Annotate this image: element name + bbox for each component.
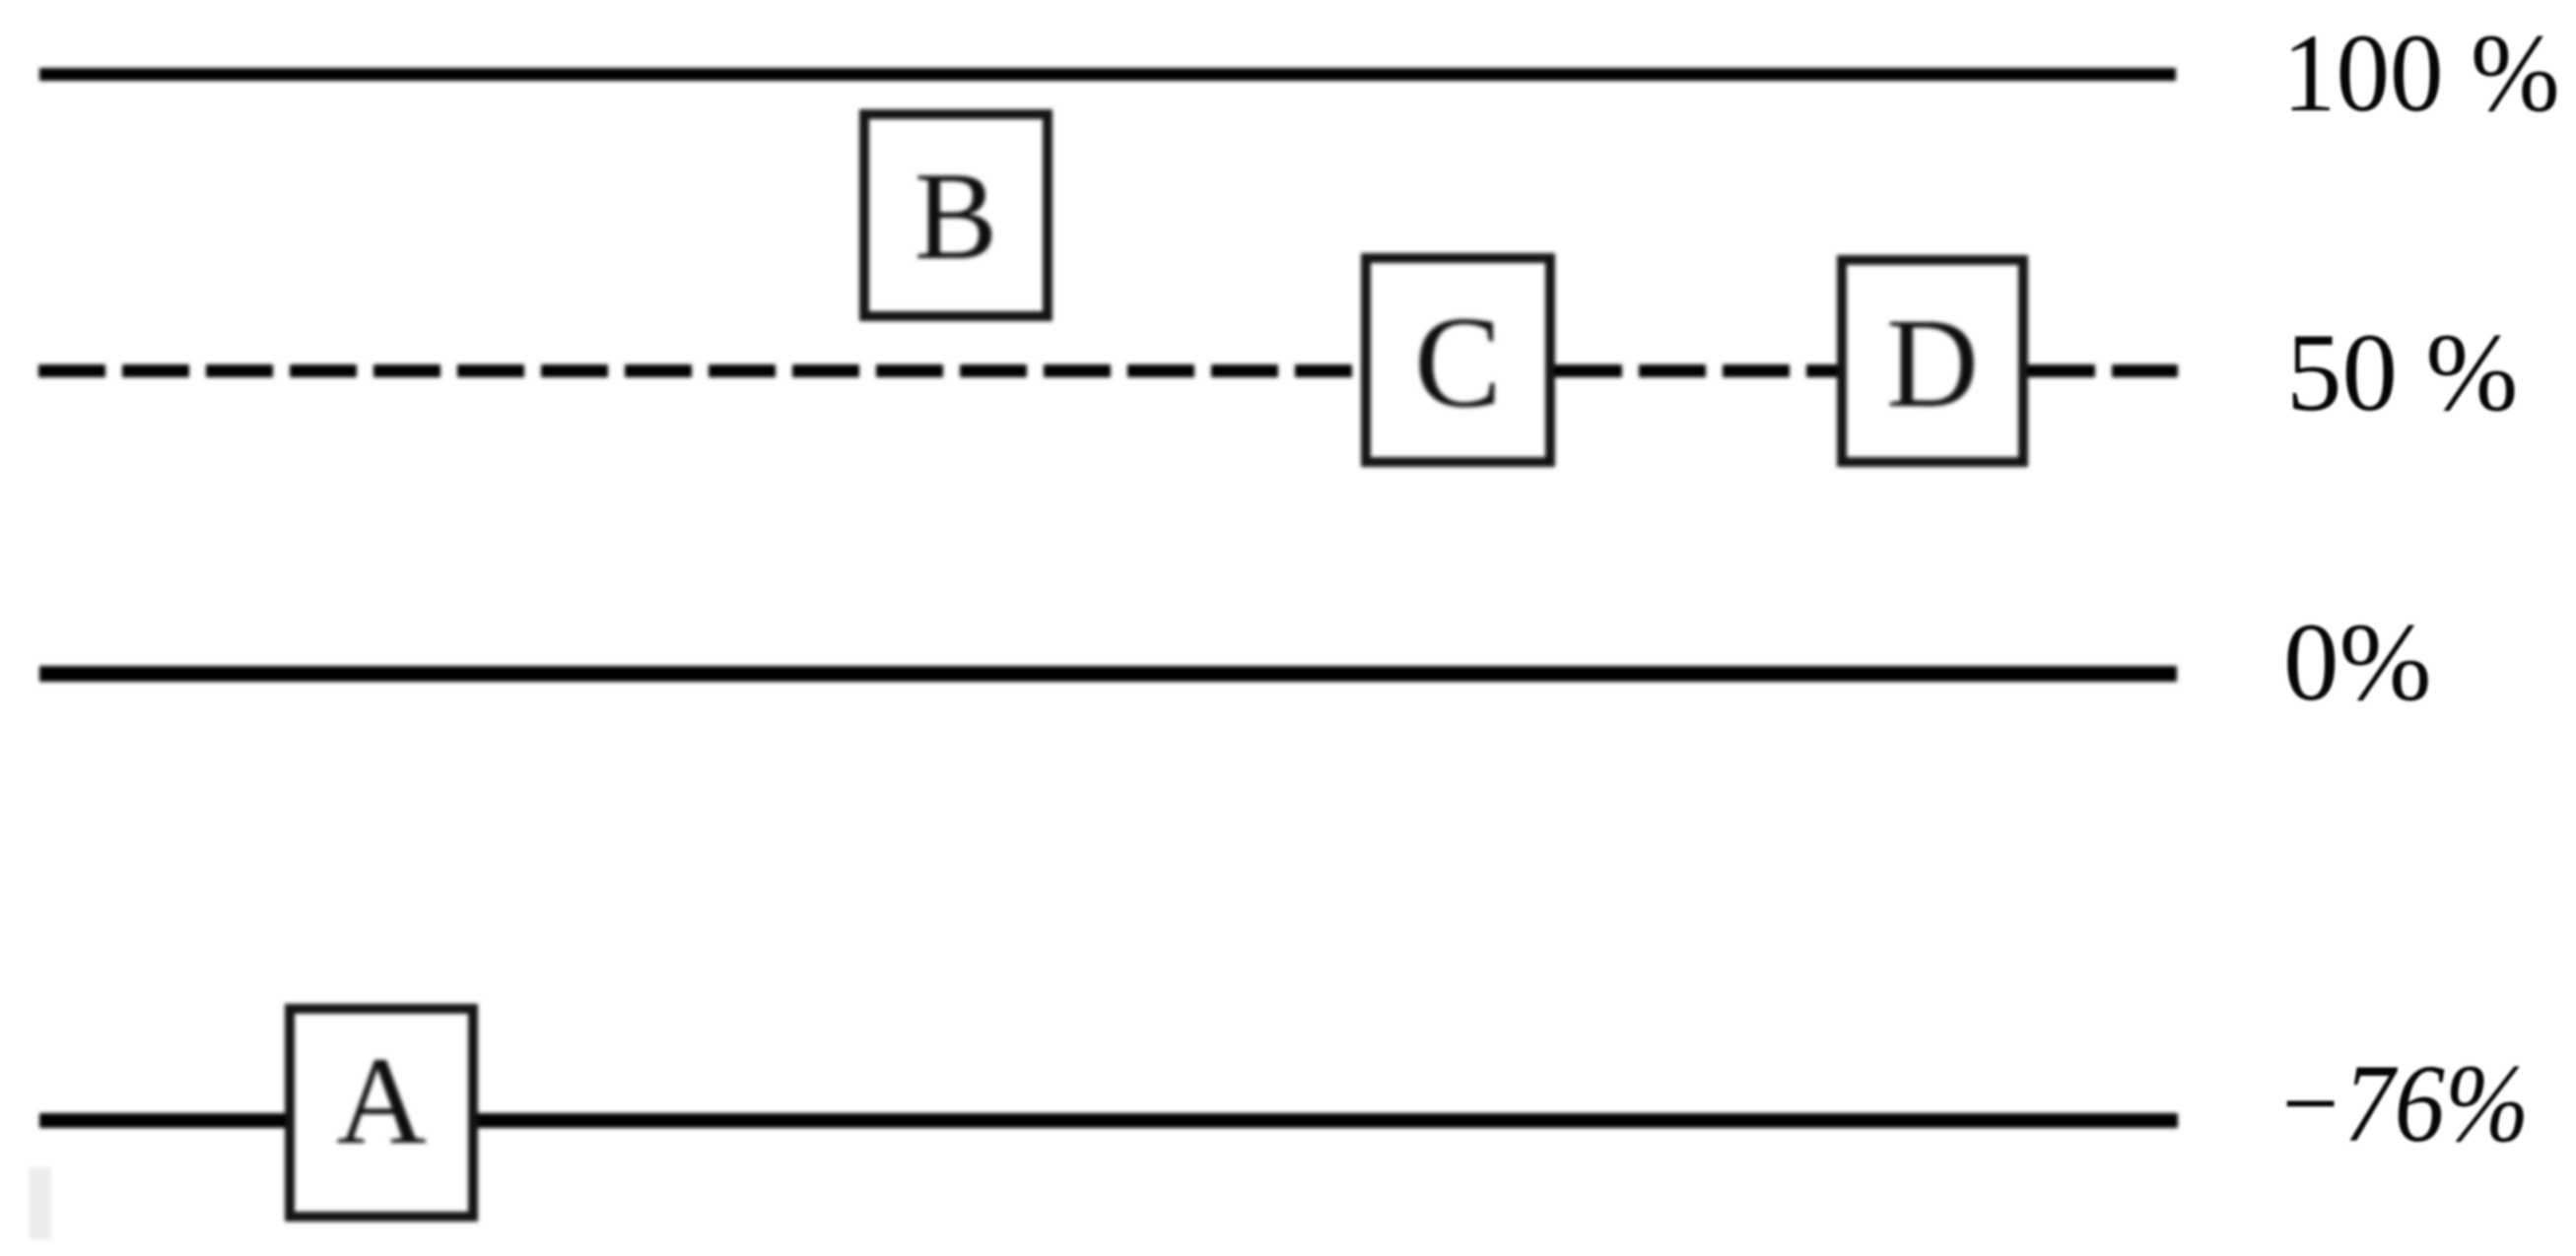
- faint smudge artifact bottom-left: [30, 1167, 51, 1239]
- box D: [1837, 255, 2028, 467]
- label -76%: [2275, 1048, 2530, 1159]
- label 0%: [2283, 607, 2432, 718]
- solid line 0% level: [39, 666, 2177, 682]
- box C: [1361, 253, 1555, 467]
- dashed line 50% level, segment left of box C: [38, 364, 1352, 377]
- dashed line 50% level, segment between box C and box D: [1555, 364, 1837, 377]
- solid line 100% level: [39, 68, 2176, 81]
- label 50%: [2286, 317, 2518, 429]
- dashed line 50% level, segment right of box D: [2028, 364, 2178, 377]
- box A: [285, 1004, 478, 1222]
- box B: [859, 109, 1052, 321]
- solid line -76% level: [39, 1113, 2178, 1128]
- label 100 %: [2282, 18, 2560, 129]
